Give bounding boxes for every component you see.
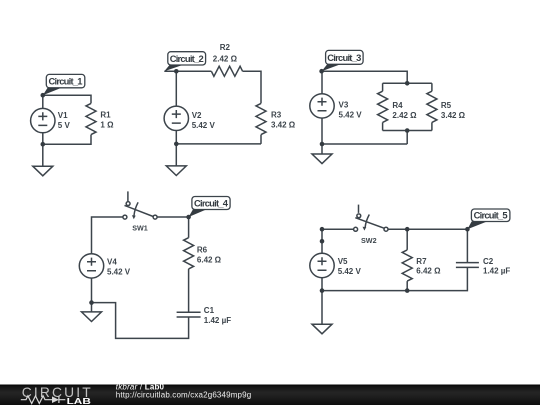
svg-text:6.42 Ω: 6.42 Ω [416, 267, 441, 276]
svg-text:2.42 Ω: 2.42 Ω [213, 54, 238, 63]
svg-text:R5: R5 [441, 101, 452, 110]
svg-text:Circuit_4: Circuit_4 [194, 198, 229, 209]
svg-text:SW2: SW2 [361, 236, 377, 245]
svg-text:3.42 Ω: 3.42 Ω [441, 111, 466, 120]
svg-text:C1: C1 [204, 306, 215, 315]
svg-text:1 Ω: 1 Ω [100, 120, 114, 129]
svg-text:V5: V5 [338, 257, 348, 266]
svg-text:Circuit_5: Circuit_5 [474, 210, 508, 221]
svg-text:V2: V2 [192, 111, 202, 120]
svg-text:V4: V4 [107, 257, 117, 266]
svg-text:1.42 µF: 1.42 µF [204, 316, 231, 325]
svg-text:R3: R3 [271, 110, 282, 119]
svg-text:5.42 V: 5.42 V [339, 111, 363, 120]
svg-text:SW1: SW1 [132, 223, 148, 232]
svg-text:http://circuitlab.com/cxa2g634: http://circuitlab.com/cxa2g6349mp9g [116, 390, 252, 399]
svg-text:C2: C2 [483, 257, 494, 266]
svg-text:Circuit_3: Circuit_3 [327, 52, 361, 63]
svg-text:6.42 Ω: 6.42 Ω [197, 256, 222, 265]
svg-text:R7: R7 [416, 257, 427, 266]
svg-text:LAB: LAB [67, 396, 91, 405]
svg-text:1.42 µF: 1.42 µF [483, 267, 510, 276]
svg-text:5 V: 5 V [58, 121, 71, 130]
svg-text:R4: R4 [392, 101, 403, 110]
svg-text:V1: V1 [58, 111, 68, 120]
svg-text:5.42 V: 5.42 V [338, 267, 362, 276]
svg-text:5.42 V: 5.42 V [192, 121, 216, 130]
svg-text:R1: R1 [100, 110, 111, 119]
svg-text:V3: V3 [339, 100, 349, 109]
svg-text:2.42 Ω: 2.42 Ω [392, 111, 417, 120]
svg-text:3.42 Ω: 3.42 Ω [271, 120, 296, 129]
svg-text:Circuit_2: Circuit_2 [170, 53, 204, 64]
svg-text:R2: R2 [220, 43, 231, 52]
svg-text:R6: R6 [197, 246, 208, 255]
svg-text:Circuit_1: Circuit_1 [49, 76, 83, 87]
svg-text:5.42 V: 5.42 V [107, 268, 131, 277]
